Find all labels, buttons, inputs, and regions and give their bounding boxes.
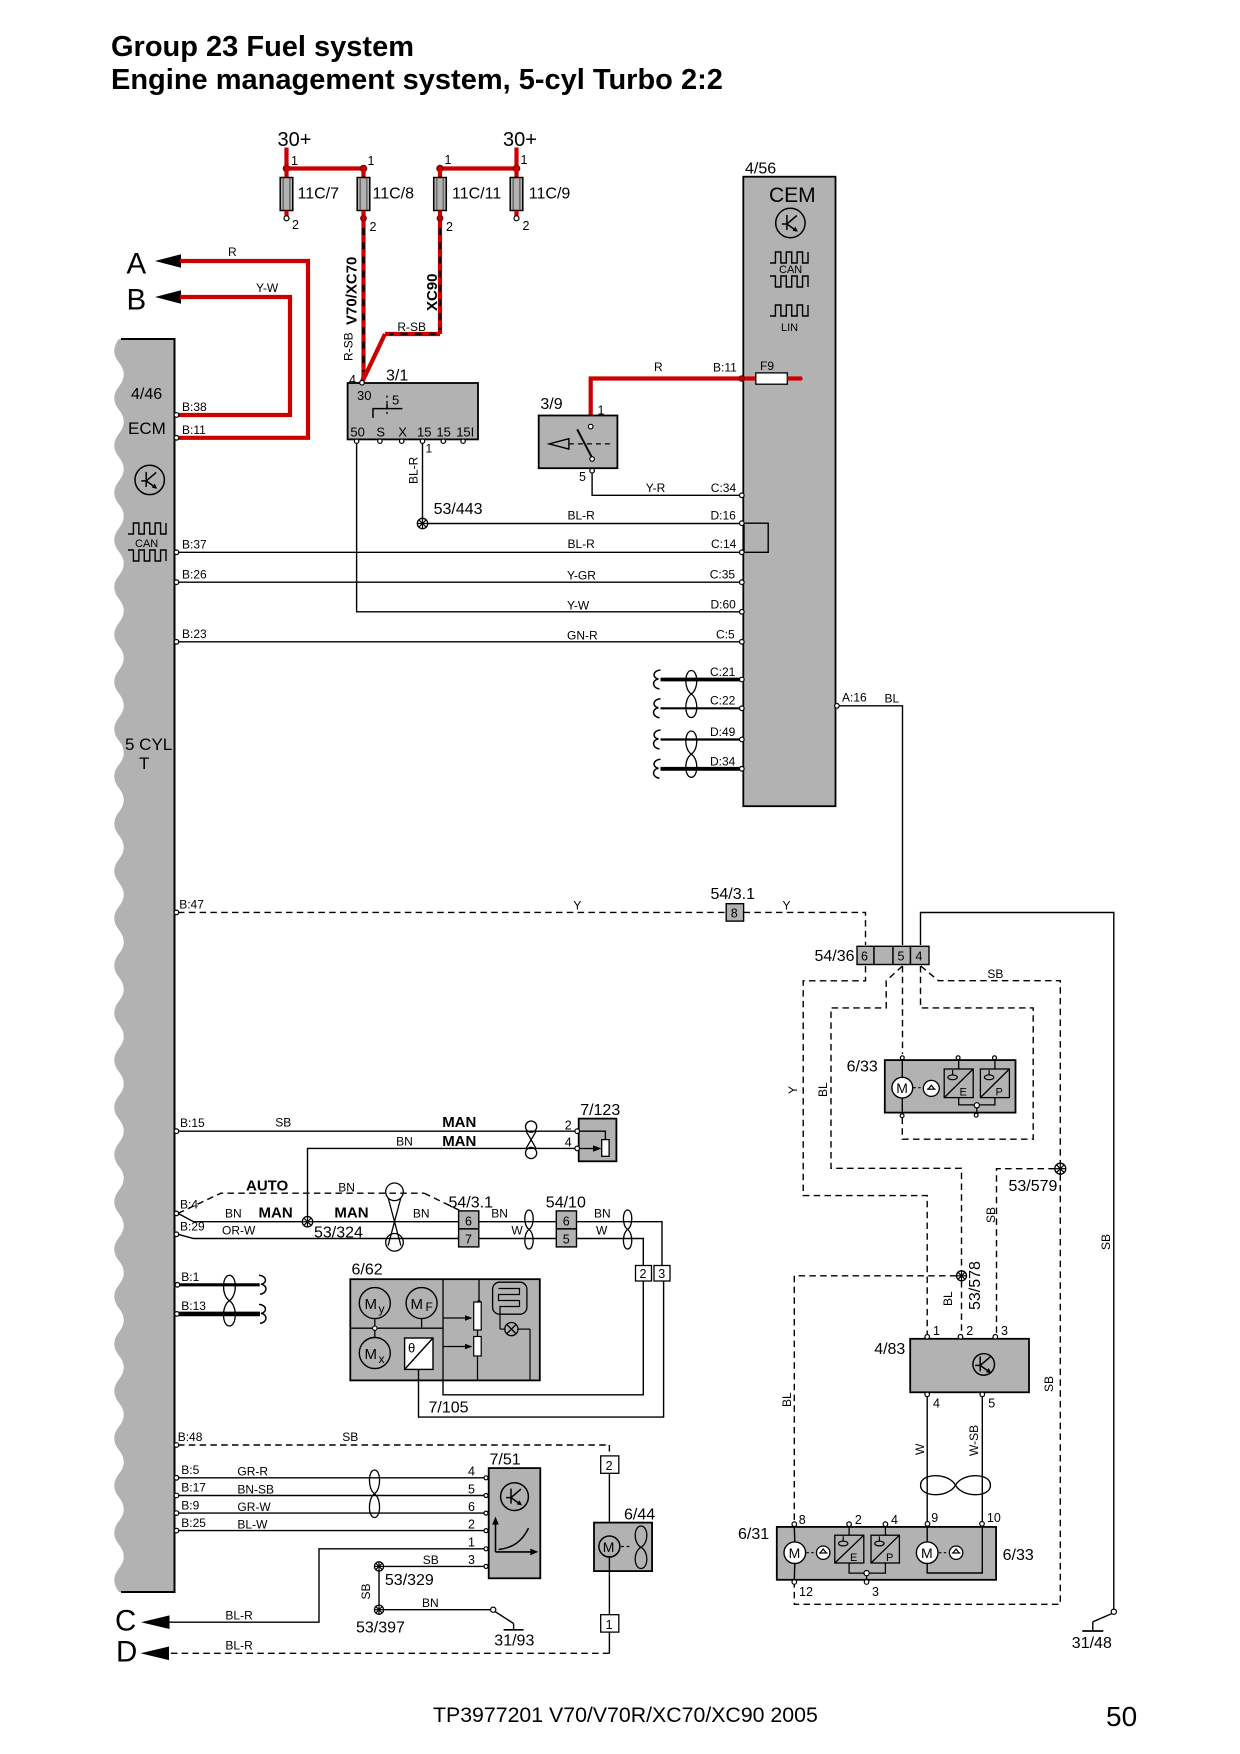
svg-text:M: M: [365, 1346, 378, 1363]
wire SB from splice 53/329 to 7/51 pin 3: [384, 1553, 485, 1567]
svg-text:R: R: [228, 245, 237, 259]
CEM pin B:11: [739, 376, 744, 381]
wire B:47 Y dashed from ECM to 54/3.1: [174, 898, 726, 915]
svg-text:50: 50: [1106, 1701, 1137, 1732]
fuse 11C/11: [434, 169, 502, 235]
CEM pin C:22: [740, 706, 745, 711]
6/33 sender ground pin: [974, 1113, 978, 1117]
CEM pin C:14: [740, 550, 745, 555]
svg-text:4: 4: [468, 1465, 475, 1479]
svg-text:6: 6: [563, 1214, 570, 1228]
svg-text:MAN: MAN: [259, 1205, 293, 1222]
node 1 above fuse 11C/7: [283, 154, 298, 172]
node 1 above fuse 11C/11: [437, 153, 452, 172]
svg-text:3: 3: [872, 1585, 879, 1599]
svg-text:54/3.1: 54/3.1: [449, 1195, 494, 1212]
svg-text:Y-GR: Y-GR: [567, 569, 596, 583]
svg-text:B:38: B:38: [182, 400, 207, 414]
ECM K symbol: [135, 465, 164, 494]
wire BL-R from ECM B:37 to CEM C:14: [178, 537, 742, 552]
svg-text:P: P: [996, 1087, 1003, 1099]
svg-text:SB: SB: [275, 1116, 291, 1130]
svg-text:BL-W: BL-W: [237, 1517, 268, 1531]
svg-text:4/56: 4/56: [745, 161, 776, 178]
svg-text:B:9: B:9: [181, 1498, 199, 1512]
wire BN dashed AUTO from ECM B:4 to 54/3.1 pin 6: [178, 1178, 461, 1214]
svg-text:BN: BN: [594, 1207, 611, 1221]
svg-text:11C/11: 11C/11: [452, 186, 501, 203]
wire SB from ECM B:15 to 7/123 pin 2: [178, 1114, 576, 1133]
6/33 fuel level float: [914, 1080, 940, 1096]
6/62 blower resistor lower: [443, 1330, 481, 1380]
ECM pin B:4: [174, 1198, 198, 1216]
wire GR-R from ECM B:5 to 7/51 pin 4: [178, 1465, 485, 1479]
svg-text:BN: BN: [491, 1207, 508, 1221]
fuse 11C/7: [280, 169, 339, 233]
svg-text:W: W: [511, 1224, 523, 1238]
radiator fan 6/44: [594, 1507, 655, 1572]
wire CAN to CEM D:49: [661, 725, 742, 740]
6/62 motor Mx: [359, 1338, 390, 1369]
svg-text:SB: SB: [423, 1553, 439, 1567]
svg-text:6: 6: [465, 1214, 472, 1228]
6/33 sender E: [944, 1060, 973, 1098]
svg-text:7/51: 7/51: [490, 1452, 521, 1469]
3/9 switch contact: [590, 457, 595, 462]
splice 53/329: [374, 1562, 434, 1589]
svg-text:B:17: B:17: [181, 1481, 206, 1495]
svg-text:6: 6: [468, 1500, 475, 1514]
svg-text:B:26: B:26: [182, 568, 207, 582]
ECM pin B:23: [174, 627, 207, 644]
wire CAN-H to CEM C:21: [661, 665, 742, 680]
ECM pin B:11: [174, 423, 206, 440]
wire end hook D:49: [654, 730, 661, 749]
svg-text:W: W: [913, 1443, 927, 1455]
svg-text:31/48: 31/48: [1072, 1635, 1112, 1652]
CEM pin D:16: [740, 521, 745, 526]
svg-text:D:16: D:16: [711, 509, 737, 523]
svg-text:B:48: B:48: [178, 1430, 203, 1444]
svg-text:8: 8: [799, 1513, 806, 1527]
twisted pair before 54/10: [525, 1210, 533, 1249]
wire R from 3/9 pin 1 to CEM B:11: [591, 360, 742, 427]
wire W from 54/10 to connector 2: [577, 1224, 644, 1266]
wire Y dashed from 54/36 pin 6 to 4/83 pin 1: [786, 966, 927, 1334]
wire BL dashed from splice 53/578 to 6/31 pin 8: [780, 1276, 956, 1522]
wire SB from 54/36 pin 4 to ground 31/48: [921, 913, 1114, 1611]
wire SB dashed from splice 53/579 to 4/83 pin 3: [984, 1169, 1055, 1334]
svg-text:Y-W: Y-W: [567, 599, 590, 613]
twisted pair symbol W/W-SB: [921, 1476, 991, 1495]
wire BN from 54/3.1 to 54/10: [479, 1207, 557, 1222]
6/62 internal wiring: [350, 1279, 481, 1380]
svg-text:6/62: 6/62: [352, 1262, 383, 1279]
ECM pin B:15: [174, 1116, 205, 1133]
svg-text:BL-R: BL-R: [225, 1608, 253, 1622]
svg-text:2: 2: [468, 1517, 475, 1531]
svg-text:50: 50: [350, 424, 364, 439]
6/33 motor ground pin: [900, 1114, 904, 1118]
ECM pin B:48: [174, 1430, 203, 1447]
splice 53/397: [356, 1605, 405, 1636]
6/31 sender P: [871, 1527, 899, 1564]
svg-text:1: 1: [445, 153, 452, 167]
fuse 11C/8: [357, 169, 414, 235]
6/31 pin 2: [847, 1513, 862, 1527]
svg-text:2: 2: [292, 218, 299, 232]
3/1 bottom pin 15b: [441, 439, 445, 443]
svg-text:MAN: MAN: [334, 1204, 368, 1221]
6/31 pin 4: [883, 1513, 898, 1527]
ECM pin B:26: [174, 568, 207, 585]
svg-text:C:21: C:21: [710, 665, 736, 679]
svg-text:5: 5: [563, 1232, 570, 1246]
node 1 above fuse 11C/8: [360, 154, 374, 172]
footer document number: [433, 1703, 818, 1727]
svg-text:5: 5: [988, 1397, 995, 1411]
3/1 bottom pin S: [378, 439, 382, 443]
6/31 pin 8: [792, 1513, 806, 1527]
4/83 pin 1: [925, 1324, 940, 1339]
svg-text:SB: SB: [342, 1430, 358, 1444]
ECM 4/46 control module box: [114, 339, 174, 1592]
svg-text:SB: SB: [987, 967, 1003, 981]
svg-text:15: 15: [436, 424, 450, 439]
wire SB dashed from 54/36 pin 4 to 6/33 motor ground: [902, 966, 1033, 1139]
wire Y-GR from ECM B:26 to CEM C:35: [178, 568, 742, 583]
6/31 sender E: [835, 1527, 864, 1564]
arrow A (wire R to ECM B:11): [127, 245, 309, 438]
CEM LIN symbol: [770, 305, 808, 334]
ECM CAN symbol: [128, 523, 166, 561]
3/1 bottom pin X: [400, 439, 404, 443]
inline connector 2 above fan: [601, 1456, 619, 1473]
wire BN from splice 53/397 to ground 31/93: [384, 1596, 491, 1610]
ECM pin B:37: [174, 538, 207, 555]
svg-text:V70/XC70: V70/XC70: [344, 257, 361, 325]
svg-text:7: 7: [465, 1232, 472, 1246]
svg-text:BL-R: BL-R: [407, 456, 421, 484]
wire from 6/62 theta sensor to connector 3 (7/105): [419, 1282, 664, 1418]
svg-text:Y: Y: [573, 899, 581, 913]
wire GR-W from ECM B:9 to 7/51 pin 6: [178, 1500, 485, 1514]
svg-text:OR-W: OR-W: [222, 1224, 256, 1238]
6/33 pin 1: [900, 1056, 904, 1060]
svg-text:3: 3: [468, 1553, 475, 1567]
connector 54/10 pins 6 and 5: [546, 1195, 586, 1247]
wire BL-R from arrow C to 7/51 pin 1: [168, 1536, 485, 1623]
fuel pump unit 6/33 (XC90): [847, 1059, 1016, 1113]
svg-text:12: 12: [799, 1585, 813, 1599]
svg-text:B:15: B:15: [180, 1116, 205, 1130]
svg-text:SB: SB: [984, 1207, 998, 1223]
svg-text:1: 1: [368, 154, 375, 168]
svg-text:B:23: B:23: [182, 627, 207, 641]
svg-text:3/9: 3/9: [540, 396, 562, 413]
red bus right pair: [440, 166, 517, 170]
svg-text:9: 9: [931, 1511, 938, 1525]
svg-text:Y: Y: [786, 1086, 800, 1094]
wire CAN B:13: [179, 1312, 260, 1317]
svg-text:D:49: D:49: [710, 725, 736, 739]
wire end hook C:21: [654, 670, 661, 689]
svg-text:D:60: D:60: [711, 597, 737, 611]
wire CAN B:1: [179, 1283, 260, 1286]
svg-text:30: 30: [357, 388, 371, 403]
svg-text:M: M: [789, 1545, 801, 1561]
svg-text:M: M: [603, 1539, 615, 1555]
svg-text:C: C: [115, 1605, 136, 1638]
connector 54/3.1 pin 8: [711, 886, 756, 921]
red bus left pair: [287, 166, 364, 170]
svg-text:C:22: C:22: [710, 694, 736, 708]
CEM CAN symbol: [770, 252, 808, 287]
svg-text:CAN: CAN: [135, 538, 158, 550]
wire W from 4/83 pin 4 to 6/31 pin 9: [913, 1397, 927, 1522]
wire BL dashed from 54/36 pin 5 to 6/33 pin 1: [902, 966, 904, 1054]
svg-text:30+: 30+: [503, 129, 537, 151]
svg-text:SB: SB: [1099, 1234, 1113, 1250]
6/62 temperature sensor theta: [405, 1338, 433, 1369]
wire Y dashed from 54/3.1 to 54/36 pin 6: [744, 899, 866, 946]
svg-text:5: 5: [579, 470, 586, 484]
ECM pin B:17: [174, 1481, 206, 1498]
svg-text:GR-W: GR-W: [237, 1500, 271, 1514]
svg-text:15: 15: [417, 424, 431, 439]
svg-text:BN: BN: [225, 1207, 242, 1221]
wire OR-W from ECM B:29 to 54/3.1 pin 7: [178, 1224, 459, 1239]
svg-text:5 CYL: 5 CYL: [125, 735, 172, 754]
CEM pin D:34: [740, 767, 745, 772]
svg-text:4: 4: [349, 373, 356, 387]
wire BL-R splice 53/443 to CEM D:16: [428, 509, 742, 524]
svg-text:LIN: LIN: [781, 322, 798, 334]
connector 54/36: [815, 946, 930, 965]
CEM pin C:34: [740, 493, 745, 498]
fuel pump control module 4/83: [874, 1339, 1029, 1393]
svg-text:F: F: [426, 1300, 433, 1314]
6/33 lower pin 10: [980, 1511, 1001, 1526]
wire R-SB XC90 from fuse 11C/11 to ignition switch 3/1 pin 4: [362, 221, 441, 382]
svg-text:Y-W: Y-W: [256, 281, 279, 295]
svg-text:CEM: CEM: [769, 184, 816, 207]
3/1 bottom pin 50: [354, 439, 358, 443]
svg-text:2: 2: [565, 1119, 572, 1133]
6/33 lower pin 9: [925, 1511, 938, 1526]
battery feed 30+ left: [278, 129, 312, 169]
svg-text:5: 5: [468, 1482, 475, 1496]
svg-text:1: 1: [468, 1536, 475, 1550]
svg-text:B:11: B:11: [713, 361, 737, 375]
wire SB dashed from 54/36 pin 4 to splice 53/579: [921, 966, 1061, 1163]
CEM K symbol: [776, 208, 805, 237]
4/83 pin 2: [958, 1324, 973, 1339]
svg-text:BL: BL: [816, 1082, 830, 1097]
svg-text:53/579: 53/579: [1009, 1178, 1058, 1195]
6/33 pin P: [993, 1056, 997, 1060]
svg-text:11C/8: 11C/8: [373, 186, 415, 203]
svg-text:2: 2: [523, 219, 530, 233]
wire Y-R from 3/9 pin 5 to CEM C:34: [592, 473, 742, 495]
svg-text:B:1: B:1: [181, 1270, 199, 1284]
svg-text:B:11: B:11: [182, 423, 206, 437]
wire BN-SB from ECM B:17 to 7/51 pin 5: [178, 1482, 485, 1496]
svg-text:D: D: [116, 1636, 137, 1669]
wire W-SB from 4/83 pin 5 to 6/31 pin 10: [967, 1397, 982, 1522]
svg-text:6/31: 6/31: [738, 1526, 769, 1543]
fuel pump unit 6/31 and 6/33 (V70): [738, 1526, 1034, 1580]
4/83 K symbol: [973, 1354, 995, 1376]
svg-text:GR-R: GR-R: [237, 1465, 268, 1479]
svg-text:B: B: [127, 284, 147, 317]
svg-text:M: M: [921, 1545, 933, 1561]
wire GN-R from ECM B:23 to CEM C:5: [178, 627, 742, 642]
ECM pin B:13: [175, 1299, 207, 1316]
svg-text:54/36: 54/36: [815, 948, 855, 965]
wire end hook B:1: [259, 1275, 266, 1294]
svg-text:11C/9: 11C/9: [529, 186, 571, 203]
pressure switch 3/9: [539, 396, 618, 468]
svg-text:BN: BN: [396, 1135, 413, 1149]
CEM pin D:49: [740, 737, 745, 742]
6/62 blower resistor upper: [443, 1302, 481, 1330]
6/31 pin 3: [864, 1580, 879, 1599]
6/33 lower fuel level float: [939, 1546, 963, 1559]
svg-text:R: R: [654, 360, 663, 374]
3/1 bottom pin 15I: [461, 439, 465, 443]
svg-text:7/105: 7/105: [429, 1400, 469, 1417]
wire W from 54/3.1 to 54/10: [479, 1224, 557, 1239]
svg-text:6/33: 6/33: [1003, 1547, 1034, 1564]
svg-text:P: P: [886, 1552, 893, 1564]
svg-text:7/123: 7/123: [580, 1102, 620, 1119]
ignition switch 3/1: [348, 368, 478, 440]
7/51 pins: [484, 1476, 488, 1480]
wire BN from 54/10 to connector 3: [577, 1207, 663, 1266]
svg-text:BL-R: BL-R: [568, 537, 596, 551]
svg-text:T: T: [139, 754, 149, 773]
arrow B (wire Y-W to ECM B:38): [127, 281, 291, 415]
wire BL-R from 3/1 pin 15 to splice 53/443: [407, 442, 433, 519]
svg-text:8: 8: [731, 907, 738, 921]
svg-text:F9: F9: [760, 359, 774, 373]
svg-text:BL-R: BL-R: [225, 1639, 253, 1653]
svg-text:2: 2: [966, 1324, 973, 1338]
twisted pair symbol D:49/D:34: [686, 731, 697, 777]
6/33 sender common ground: [959, 1098, 995, 1113]
svg-text:M: M: [896, 1080, 908, 1096]
fuse 11C/9: [510, 169, 570, 234]
CEM pin C:21: [740, 677, 745, 682]
svg-text:W-SB: W-SB: [967, 1425, 981, 1456]
svg-text:3/1: 3/1: [386, 368, 408, 385]
ground 31/93: [491, 1607, 535, 1649]
ECM pin B:1: [175, 1270, 200, 1287]
connector 54/3.1 pins 6 and 7: [449, 1195, 494, 1247]
svg-text:M: M: [411, 1296, 424, 1313]
svg-text:SB: SB: [359, 1583, 373, 1599]
splice 53/443: [417, 501, 482, 529]
svg-text:BN: BN: [422, 1596, 439, 1610]
inline connector pin 2: [636, 1266, 652, 1282]
wire R-SB V70/XC70 from fuse 11C/8 to ignition switch 3/1 pin 4: [342, 221, 364, 382]
svg-text:SB: SB: [1042, 1376, 1056, 1392]
ground 31/48: [1072, 1609, 1117, 1652]
6/44 propeller symbol: [635, 1526, 647, 1569]
6/31 fuel level float: [807, 1546, 830, 1559]
svg-text:4: 4: [891, 1513, 898, 1527]
svg-text:D:34: D:34: [710, 754, 736, 768]
wire from fan 6/44 to connector 1: [608, 1556, 610, 1615]
svg-text:2: 2: [446, 220, 453, 234]
svg-text:AUTO: AUTO: [246, 1178, 289, 1195]
6/62 heater grid: [493, 1282, 527, 1314]
6/31 pump motor M: [784, 1527, 806, 1580]
CEM pin A:16: [835, 691, 867, 709]
svg-text:1: 1: [598, 404, 605, 418]
svg-text:4: 4: [933, 1397, 940, 1411]
svg-text:Group 23 Fuel system: Group 23 Fuel system: [111, 31, 414, 63]
splice 53/578: [957, 1261, 985, 1310]
svg-text:C:14: C:14: [711, 537, 737, 551]
svg-text:11C/7: 11C/7: [298, 186, 340, 203]
svg-text:E: E: [960, 1087, 967, 1099]
climate control unit 6/62: [350, 1262, 540, 1381]
3/1 bottom pin 15a: [420, 439, 424, 443]
6/33 pump motor M: [892, 1060, 913, 1113]
ECM pin B:5: [174, 1463, 199, 1480]
7/51 characteristic curve: [492, 1517, 538, 1556]
6/44 fan motor M: [599, 1536, 630, 1557]
twisted pair symbol B:1/B:13: [224, 1275, 236, 1326]
7/51 K symbol: [501, 1483, 529, 1511]
svg-text:B:37: B:37: [182, 538, 207, 552]
svg-text:4/46: 4/46: [131, 386, 162, 403]
twisted pair symbol at 7/123: [526, 1121, 537, 1159]
throttle control module 7/51: [489, 1452, 541, 1579]
svg-text:1: 1: [606, 1618, 613, 1632]
svg-text:BN: BN: [413, 1207, 430, 1221]
svg-text:53/443: 53/443: [434, 501, 483, 518]
svg-text:5: 5: [898, 950, 905, 964]
ECM pin B:29: [174, 1220, 205, 1237]
ECM pin B:25: [174, 1516, 206, 1533]
wire BL dashed from splice 53/578 to 4/83 pin 2: [941, 1281, 962, 1334]
wire dashed from connector 1 to arrow D: [168, 1632, 609, 1653]
svg-text:Y-R: Y-R: [646, 481, 666, 495]
svg-text:C:35: C:35: [710, 568, 736, 582]
svg-text:6/44: 6/44: [624, 1507, 655, 1524]
wire SB dashed from ECM B:48 to connector 2: [178, 1430, 609, 1456]
svg-text:ECM: ECM: [128, 419, 166, 438]
svg-text:2: 2: [606, 1459, 613, 1473]
twisted pair after 54/10: [623, 1210, 631, 1249]
svg-text:BL: BL: [780, 1392, 794, 1407]
svg-text:x: x: [379, 1352, 385, 1366]
4/83 pin 4: [925, 1392, 940, 1410]
3/9 pin 1: [588, 404, 604, 429]
svg-text:C:34: C:34: [711, 481, 737, 495]
arrow D: [116, 1636, 169, 1669]
svg-text:Engine management system, 5-cy: Engine management system, 5-cyl Turbo 2:…: [111, 64, 723, 96]
wire end hook C:22: [654, 699, 661, 718]
wire BL-W from ECM B:25 to 7/51 pin 2: [178, 1517, 485, 1531]
svg-text:X: X: [398, 424, 407, 439]
inline connector pin 3: [654, 1266, 670, 1282]
CEM pin C:35: [740, 580, 745, 585]
svg-text:B:5: B:5: [181, 1463, 199, 1477]
